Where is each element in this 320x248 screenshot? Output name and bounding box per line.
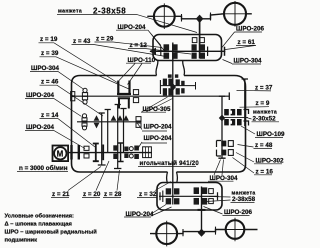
svg-text:2-38x58: 2-38x58 <box>232 196 256 203</box>
leader n3000 <box>17 170 68 172</box>
bottom gearbox housing <box>157 183 222 211</box>
leader z16 <box>233 158 273 175</box>
housing neck to top gearbox <box>156 61 185 76</box>
svg-text:ШРО-204: ШРО-204 <box>26 124 54 131</box>
svg-text:ШРО-305: ШРО-305 <box>143 106 171 113</box>
svg-text:z = 28: z = 28 <box>104 191 122 198</box>
leader z9 <box>240 106 270 109</box>
vertical shaft from top axle into top gearbox <box>199 19 201 59</box>
leader z32 <box>137 182 171 198</box>
svg-text:ШРО-304: ШРО-304 <box>234 58 262 65</box>
svg-text:z = 32: z = 32 <box>139 191 157 198</box>
leader SRO-204 mid1 <box>138 124 168 132</box>
svg-text:z = 21: z = 21 <box>52 191 70 198</box>
bottom axle right wheel <box>226 220 245 239</box>
joint diamond on V1 <box>219 115 225 122</box>
leader SRO-204 top <box>116 30 165 51</box>
bottom axle shaft <box>150 230 258 234</box>
svg-text:z = 37: z = 37 <box>255 85 273 92</box>
bearing on shaft1 right <box>133 90 138 95</box>
svg-text:Условные обозначения:: Условные обозначения: <box>5 213 75 220</box>
leader z61 <box>225 45 257 49</box>
leader SRO-204 left1 <box>25 99 82 117</box>
top axle shaft <box>147 14 252 19</box>
leader SRO-110 <box>119 63 151 84</box>
right vertical shaft V2 <box>242 79 248 126</box>
motor shaft 3 <box>68 152 152 154</box>
right vertical shaft V1 <box>218 96 225 158</box>
leader SRO-206 top <box>222 32 263 48</box>
svg-text:ШРО-109: ШРО-109 <box>257 131 285 138</box>
mating P below shaft1 <box>118 98 130 109</box>
svg-text:ШРО-302: ШРО-302 <box>256 157 284 164</box>
svg-text:z = 16: z = 16 <box>256 168 274 175</box>
gear cluster on shaft3 <box>113 145 139 159</box>
bearing SRO-304 on shaft1 left <box>83 88 87 92</box>
leader z20 <box>82 161 109 197</box>
bevel gear cluster <box>160 82 196 90</box>
svg-text:z = 39: z = 39 <box>41 50 59 57</box>
leader SRO-304 rightmid <box>208 160 234 182</box>
svg-text:z = 12: z = 12 <box>130 42 148 49</box>
needle bearing 941/20 <box>143 147 152 158</box>
top axle left wheel <box>154 6 175 27</box>
leader manjeta 2-30x52 <box>247 118 280 122</box>
leader z14 <box>40 119 96 147</box>
svg-text:ШРО-206: ШРО-206 <box>236 26 264 33</box>
gear vertical d <box>120 109 126 153</box>
svg-text:ШРО-304: ШРО-304 <box>31 65 59 72</box>
main shaft 2 <box>77 121 142 123</box>
leader SRO-305 <box>141 97 173 112</box>
housing neck to bottom gearbox <box>167 172 178 183</box>
svg-text:манжета: манжета <box>58 9 82 15</box>
leader z43 <box>72 44 167 56</box>
main shaft 1 <box>72 95 230 97</box>
bearing at housing left edge shaft1 <box>71 92 75 96</box>
svg-text:игольчатый 941/20: игольчатый 941/20 <box>140 160 200 167</box>
svg-text:z = 14: z = 14 <box>41 112 59 119</box>
leader z46 <box>40 85 104 116</box>
motor M <box>53 146 69 162</box>
bottom axle left wheel <box>156 223 177 244</box>
floating key triangles on shaft2 <box>94 115 129 128</box>
clutch U on shaft1 <box>117 81 131 95</box>
bearing shaft2 right <box>136 117 141 121</box>
svg-text:ШРО-206: ШРО-206 <box>224 209 252 216</box>
svg-text:z = 43: z = 43 <box>73 38 91 45</box>
svg-text:z = 46: z = 46 <box>41 79 59 86</box>
leader z39 <box>40 57 130 89</box>
svg-text:ШРО-304: ШРО-304 <box>210 175 238 182</box>
svg-text:ШРО – шариковый радиальный: ШРО – шариковый радиальный <box>5 229 98 236</box>
gear cluster B (SRO-302) <box>221 141 226 147</box>
svg-text:ШРО-110: ШРО-110 <box>128 57 156 64</box>
svg-text:z = 29: z = 29 <box>96 36 114 43</box>
joint diamond on top axle <box>196 15 204 23</box>
top gearbox left gear stack <box>172 43 174 62</box>
bearing shaft3 left <box>84 146 89 150</box>
svg-text:ШРО-204: ШРО-204 <box>118 24 146 31</box>
gear bars on shaft3 <box>93 144 99 162</box>
top gearbox housing <box>153 35 222 61</box>
leader z19 <box>39 43 119 83</box>
leader lines <box>17 15 283 217</box>
bearing shaft2 left <box>82 114 86 118</box>
svg-text:подшипник: подшипник <box>5 238 38 244</box>
svg-text:2-30x52: 2-30x52 <box>253 115 277 122</box>
long vertical shaft from top gearbox through bevel cluster to bottom gearbox <box>172 61 174 205</box>
top gearbox shaft left end arrow <box>150 48 157 55</box>
leader z12 <box>128 49 191 54</box>
leader manjeta top <box>57 15 197 33</box>
bottom box right gear stack <box>194 187 208 204</box>
bottom gearbox shaft <box>159 195 219 197</box>
top axle right wheel <box>224 3 246 25</box>
leader SRO-109 <box>241 126 283 137</box>
svg-text:2-38x58: 2-38x58 <box>93 7 126 16</box>
top gearbox right gear stack <box>192 44 206 59</box>
leader manjeta bottom <box>206 197 255 203</box>
leader z28 <box>103 170 121 197</box>
underline igolchaty <box>138 166 196 168</box>
leader SRO-302 <box>236 153 282 164</box>
gear vertical b <box>105 110 111 153</box>
vertical shaft to bottom axle <box>201 187 203 234</box>
bottom box left gear stack <box>166 188 180 204</box>
svg-text:ШРО-204: ШРО-204 <box>144 135 172 142</box>
top gearbox horizontal shaft <box>150 50 225 52</box>
leader z48 <box>238 145 273 149</box>
seal at bottom box exit <box>198 209 206 211</box>
leader SRO-304 left <box>30 72 84 90</box>
coupling <box>72 145 79 160</box>
svg-text:z = 9: z = 9 <box>256 100 270 107</box>
leader SRO-304 topright <box>223 60 262 65</box>
joint diamond bottom axle <box>198 229 206 237</box>
gear cluster A (manjeta 2-30x52 / SRO-109) <box>222 117 248 119</box>
svg-text:z = 19: z = 19 <box>40 36 58 43</box>
svg-text:z = 20: z = 20 <box>83 191 101 198</box>
gear vertical c <box>114 105 121 169</box>
svg-text:ШРО-204: ШРО-204 <box>126 211 154 218</box>
leader SRO-204 bottom <box>124 205 172 218</box>
svg-text:z = 61: z = 61 <box>238 39 256 46</box>
leader SRO-204 left2 <box>25 131 85 149</box>
svg-text:Δ – шпонка плавающая: Δ – шпонка плавающая <box>5 222 72 228</box>
leader z29 <box>95 42 163 48</box>
leader SRO-204 mid2 <box>138 142 168 149</box>
svg-text:M: M <box>57 150 64 159</box>
svg-text:z = 48: z = 48 <box>255 142 273 149</box>
leader z37 <box>237 89 272 92</box>
gear vertical a <box>98 113 106 165</box>
svg-text:ШРО-204: ШРО-204 <box>144 124 172 131</box>
svg-text:ШРО-204: ШРО-204 <box>26 92 54 99</box>
svg-text:n = 3000 об/мин: n = 3000 об/мин <box>19 164 68 172</box>
leader SRO-206 bottom <box>204 207 250 216</box>
leader z21 <box>51 167 101 198</box>
main housing body <box>177 76 246 173</box>
